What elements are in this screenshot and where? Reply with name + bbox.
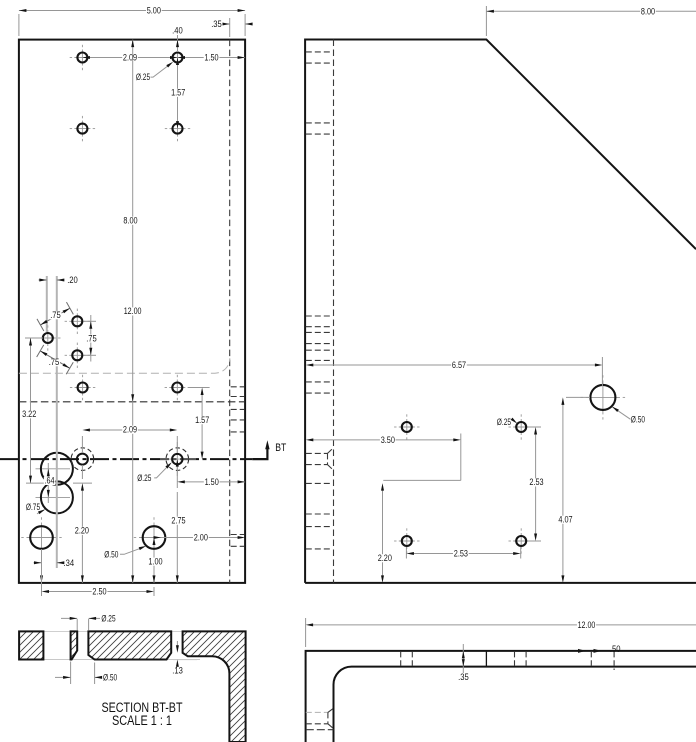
- svg-text:.35: .35: [211, 19, 222, 29]
- svg-text:Ø.50: Ø.50: [104, 549, 118, 559]
- dimension .75 vertical: [84, 320, 96, 322]
- dimension 2.75: [176, 492, 178, 583]
- dimension text 12.00: [123, 307, 142, 315]
- svg-text:3.22: 3.22: [22, 409, 36, 419]
- leader dia .25 lower: [154, 464, 170, 478]
- dimension dia .25 section: [76, 619, 78, 631]
- section piece 3: [88, 631, 171, 659]
- section piece 4 corner: [183, 631, 246, 742]
- hole side view upper-left: [394, 414, 419, 439]
- svg-text:.75: .75: [50, 310, 61, 320]
- dimension .40: [177, 35, 179, 52]
- svg-text:.34: .34: [64, 558, 75, 568]
- dimension text 8.00: [123, 217, 139, 225]
- svg-text:Ø.25: Ø.25: [136, 72, 150, 82]
- dimension 1.57 top: [177, 63, 179, 123]
- leader dia .25 side view: [511, 418, 518, 424]
- svg-text:SCALE 1 : 1: SCALE 1 : 1: [112, 713, 172, 728]
- hole side view upper-right: [509, 414, 534, 439]
- svg-text:Ø.50: Ø.50: [631, 414, 645, 424]
- section arrow BT: [252, 446, 267, 459]
- svg-text:.20: .20: [67, 275, 78, 285]
- hidden counterbore profile side view: [306, 452, 328, 454]
- svg-text:2.50: 2.50: [92, 587, 106, 597]
- hole row3 right: [165, 375, 190, 400]
- svg-text:.75: .75: [49, 357, 60, 367]
- svg-text:2.75: 2.75: [171, 516, 185, 526]
- svg-text:3.50: 3.50: [381, 435, 395, 445]
- counterbore hole right on BT line: [160, 458, 196, 460]
- dimension .75 lower diagonal: [37, 345, 44, 357]
- dimension .64: [47, 463, 49, 503]
- svg-text:.40: .40: [172, 26, 183, 36]
- dimension 5.00: [18, 14, 20, 36]
- svg-text:Ø.75: Ø.75: [26, 502, 40, 512]
- slot circle lower: [36, 496, 71, 498]
- section line BT: [0, 458, 252, 460]
- svg-text:2.09: 2.09: [123, 53, 137, 63]
- svg-text:2.09: 2.09: [123, 425, 137, 435]
- dimension 6.57: [601, 357, 603, 386]
- hole row3 left: [70, 375, 95, 400]
- hidden hole ticks bottom view: [400, 652, 402, 666]
- pattern hole lower: [65, 343, 90, 368]
- dimension 8.00: [485, 6, 487, 36]
- hole bottom-right dia .50: [134, 517, 174, 557]
- dimension 3.50: [460, 434, 462, 481]
- svg-text:2.20: 2.20: [378, 553, 392, 563]
- counterbore hole left on BT line: [71, 448, 94, 471]
- hidden wall line front view: [229, 40, 231, 583]
- hidden hole ticks right strip front view: [231, 386, 245, 388]
- bottom view outline: [306, 651, 696, 742]
- hole top-left: [70, 45, 95, 70]
- dimension .34: [41, 551, 43, 568]
- svg-text:8.00: 8.00: [123, 216, 137, 226]
- dimension 2.50: [41, 570, 43, 596]
- hidden wall line side view: [333, 40, 335, 583]
- chamfer edge line bottom view: [485, 651, 487, 667]
- front view outline: [19, 40, 245, 583]
- dimension line 8.00 and 12.00: [132, 40, 134, 583]
- dimension 2.09 lower: [81, 436, 83, 453]
- svg-text:.64: .64: [45, 476, 55, 486]
- svg-text:.50: .50: [610, 644, 621, 654]
- svg-text:2.00: 2.00: [194, 532, 208, 542]
- leader dia .50 side view: [612, 407, 630, 420]
- svg-text:2.53: 2.53: [529, 477, 543, 487]
- svg-text:2.20: 2.20: [75, 526, 89, 536]
- hidden hole ticks left strip side view: [306, 51, 333, 53]
- dimension 2.53 horizontal: [405, 547, 407, 559]
- dimension 1.00: [153, 550, 155, 583]
- dimension .75 upper diagonal: [37, 319, 44, 331]
- dimension 4.07: [566, 396, 590, 398]
- leader dia .75 slot: [37, 510, 44, 514]
- svg-text:.75: .75: [86, 333, 97, 343]
- dimension dia .50 section: [70, 662, 72, 685]
- svg-text:BT: BT: [275, 442, 286, 454]
- svg-text:8.00: 8.00: [641, 6, 655, 16]
- svg-text:Ø.25: Ø.25: [497, 417, 511, 427]
- pattern hole upper: [65, 309, 90, 334]
- svg-text:1.57: 1.57: [195, 415, 209, 425]
- hidden pocket line with fillet: [19, 358, 230, 373]
- svg-text:12.00: 12.00: [578, 620, 596, 630]
- dimension 1.57 lower: [188, 387, 209, 389]
- svg-text:1.00: 1.00: [148, 556, 162, 566]
- dimension .35 top: [229, 18, 231, 37]
- svg-text:5.00: 5.00: [147, 6, 161, 16]
- dimension .35 bottom view: [462, 644, 464, 673]
- extension and arrow left hole column: [41, 549, 43, 583]
- dimension 2.20: [81, 465, 83, 479]
- dimension 1.50 lower: [176, 465, 178, 488]
- leader dia .50 front view: [120, 547, 144, 554]
- hole row2 left: [70, 116, 95, 141]
- dimension .50 bottom view: [573, 650, 586, 652]
- section piece 2 sliver: [71, 631, 78, 659]
- hidden countersink bottom view: [306, 711, 328, 713]
- svg-text:2.53: 2.53: [454, 549, 468, 559]
- dimension 3.22: [25, 337, 43, 339]
- dimension .13: [173, 659, 197, 661]
- dimension 2.20 side view: [382, 488, 384, 577]
- section piece 1: [19, 631, 43, 659]
- svg-text:Ø.25: Ø.25: [137, 473, 151, 483]
- svg-text:1.50: 1.50: [204, 53, 218, 63]
- svg-text:Ø.25: Ø.25: [101, 613, 115, 623]
- hole side view lower-right: [509, 528, 534, 553]
- svg-text:Ø.50: Ø.50: [103, 672, 117, 682]
- slot circle upper: [36, 468, 71, 470]
- leader dia .25 top hole: [151, 64, 171, 78]
- dimension 2.09 top: [88, 57, 172, 59]
- hole top-right: [165, 45, 190, 70]
- hidden edge 8.00 from top: [19, 401, 245, 403]
- svg-text:12.00: 12.00: [124, 306, 142, 316]
- dimension .20: [46, 276, 48, 332]
- svg-text:1.50: 1.50: [205, 477, 219, 487]
- svg-text:1.57: 1.57: [171, 88, 185, 98]
- svg-text:4.07: 4.07: [558, 515, 572, 525]
- dimension 1.50 top: [183, 57, 245, 59]
- svg-text:.13: .13: [172, 666, 183, 676]
- pattern hole left: [35, 325, 60, 350]
- hole bottom-left dia .50: [21, 517, 61, 557]
- svg-text:.35: .35: [458, 672, 469, 682]
- section extension line bottom: [19, 659, 200, 661]
- hole side view dia .50: [581, 375, 625, 419]
- side view outline: [305, 40, 696, 583]
- section extension line top: [19, 630, 245, 632]
- dimension 2.53 vertical: [528, 426, 541, 428]
- hole side view lower-left: [394, 528, 419, 553]
- hole row2 right: [165, 116, 190, 141]
- dimension 12.00: [305, 618, 307, 647]
- dimension 2.00: [160, 537, 240, 539]
- svg-text:6.57: 6.57: [452, 360, 466, 370]
